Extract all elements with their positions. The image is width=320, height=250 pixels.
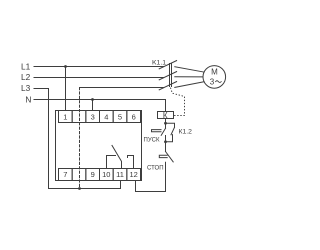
terminal 5 [113, 111, 127, 123]
mechanical link dotted K1.1 to K [171, 88, 185, 116]
svg-text:12: 12 [130, 170, 138, 179]
junction node L3/dashed [78, 187, 81, 190]
svg-text:1: 1 [63, 112, 67, 121]
svg-text:3: 3 [91, 112, 95, 121]
terminal 9 [86, 169, 100, 181]
terminal 7 [59, 169, 73, 181]
svg-text:7: 7 [63, 170, 67, 179]
terminal 6 [127, 111, 141, 123]
terminal 3 [86, 111, 100, 123]
wire phase3 feed to contact [80, 87, 164, 89]
stop branch lead [165, 142, 167, 152]
svg-text:M: M [211, 67, 218, 76]
terminal 2 [72, 111, 86, 123]
contactor K1.1 bridge bars [170, 64, 172, 87]
terminal 4 [100, 111, 114, 123]
terminal 10 [100, 169, 114, 181]
svg-text:L1: L1 [21, 61, 31, 71]
svg-text:4: 4 [104, 112, 108, 121]
contactor K1.1 blade 2 [159, 72, 176, 80]
svg-text:L3: L3 [21, 83, 31, 93]
wire N drop to terminal 3 [92, 100, 94, 111]
stop button blade [166, 152, 174, 162]
svg-text:3: 3 [210, 77, 215, 86]
junction node above stop [164, 140, 167, 143]
terminal 12 [127, 169, 141, 181]
wire dashed through terminals 2-8 [79, 88, 81, 189]
motor 3-phase tilde [216, 81, 222, 83]
coil K box [158, 112, 174, 119]
svg-text:ПУСК: ПУСК [144, 137, 160, 143]
contact K1.2 blade [171, 127, 175, 135]
contact K1.2 upper lead [166, 123, 175, 127]
svg-text:5: 5 [118, 112, 122, 121]
junction node below coil [164, 122, 167, 125]
terminal 11 [113, 169, 127, 181]
internal relay contact leads [107, 156, 116, 169]
wire contact to motor bottom [175, 82, 204, 88]
terminal 8 [72, 169, 86, 181]
wire bottom L3 to terminal 11 [49, 181, 121, 189]
svg-text:11: 11 [116, 170, 124, 179]
pusk lower lead [165, 136, 167, 142]
svg-text:СТОП: СТОП [147, 166, 164, 172]
pusk branch lead [165, 123, 167, 128]
junction node N/terminal3 [91, 98, 94, 101]
wire L1 drop to terminal 1 [65, 67, 67, 111]
pusk button actuator [152, 130, 162, 132]
stop button actuator [159, 155, 167, 157]
svg-text:К: К [163, 111, 168, 120]
terminal 1 [59, 111, 73, 123]
junction node L1/terminal1 [64, 65, 67, 68]
wire N to coil K [34, 100, 166, 112]
svg-text:9: 9 [91, 170, 95, 179]
svg-text:6: 6 [132, 112, 136, 121]
contact K1.2 lower lead [166, 135, 173, 142]
wire terminal 12 to stop button [136, 162, 166, 191]
wire L2 [34, 77, 163, 79]
svg-text:K1.1: K1.1 [152, 59, 166, 66]
pusk button blade [161, 128, 165, 135]
svg-text:К1.2: К1.2 [179, 128, 193, 135]
motor M circle [203, 66, 226, 89]
svg-text:N: N [25, 94, 31, 104]
internal relay contact blade [112, 145, 122, 168]
device box outline [56, 111, 142, 181]
contactor K1.1 blade 3 [159, 82, 176, 90]
wire L3 to left drop [34, 89, 49, 189]
wire contact to motor middle [175, 76, 203, 78]
svg-text:L2: L2 [21, 72, 31, 82]
wire L1 [34, 66, 163, 68]
svg-text:10: 10 [102, 170, 110, 179]
wire contact to motor top [175, 67, 204, 72]
wire coil to junction [165, 119, 167, 124]
contactor K1.1 blade 1 [159, 61, 176, 69]
